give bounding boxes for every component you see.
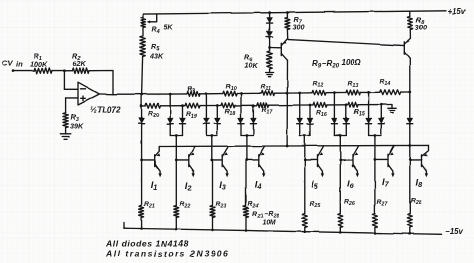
node cell 4 join: [246, 134, 249, 137]
wire cell 5 left diode to join: [299, 124, 301, 135]
node -15 rail at R22: [175, 228, 178, 231]
wire cell 3 right column from second rail: [216, 106, 218, 119]
node -15 rail at R24: [245, 229, 248, 232]
node base junction cell 5: [303, 159, 306, 162]
trimmer R4 5K: [142, 14, 144, 17]
wire base cell 6: [340, 159, 352, 161]
wire base node 3 down to R23: [212, 160, 214, 206]
svg-text:10K: 10K: [245, 61, 259, 70]
svg-text:All transistors 2N3906: All transistors 2N3906: [105, 249, 229, 259]
node second rail cell 2: [181, 104, 184, 107]
node summing junction: [63, 69, 66, 72]
resistor R6 10K: [267, 51, 272, 69]
node cell 7 join: [374, 134, 377, 137]
wire base node 4 down to R24: [245, 160, 247, 206]
wire inverting input stub: [64, 88, 78, 90]
resistor R14 100: [369, 91, 380, 93]
resistor R8 300: [409, 11, 411, 16]
node cell 3 join: [210, 134, 213, 137]
node top rail cell 3: [205, 92, 208, 95]
transistor Q1 PNP mirror: [280, 43, 282, 55]
diode cell 6 right: [344, 118, 350, 123]
wire cell 6 left diode to join: [333, 124, 335, 135]
wire cell 2 right column from second rail: [182, 106, 184, 119]
wire base cell 8: [410, 159, 422, 161]
svg-text:in: in: [16, 60, 23, 69]
wire cell 2 join bar: [170, 135, 182, 137]
diode cell 4 right: [251, 118, 257, 123]
wire cell 4 right diode to join: [252, 124, 254, 135]
diode cell 5 right: [307, 118, 313, 123]
wire +15V supply rail: [143, 11, 446, 14]
node bias reference: [268, 46, 271, 49]
svg-text:+15v: +15v: [448, 7, 466, 16]
wire cell 2 tap down to base node: [175, 136, 177, 161]
resistor R7 300: [286, 11, 289, 14]
svg-text:½TL072: ½TL072: [90, 106, 121, 115]
resistor R19 100: [183, 105, 186, 107]
svg-text:300: 300: [293, 23, 305, 32]
ground below R6: [266, 72, 274, 74]
wire bias node to Q1 base: [270, 47, 282, 49]
node -15 rail at R26: [339, 231, 342, 234]
wire cell 3 left diode to join: [205, 124, 207, 135]
wire cell 5 left column from top rail: [299, 93, 301, 118]
wire Q2 collector down to cell 8 diode: [409, 59, 411, 118]
wire cell 3 right diode to join: [216, 124, 218, 135]
wire second rail to ground: [381, 104, 392, 106]
diode cell 6 left: [332, 118, 338, 123]
node second rail cell 5: [309, 104, 312, 107]
resistor R25 10M: [302, 214, 307, 228]
node second rail cell 3: [216, 104, 219, 107]
wire cell 7 left column from top rail: [368, 92, 370, 118]
wire base cell 7: [375, 159, 388, 161]
wire R1 to summing node: [52, 70, 64, 72]
transistor T7 PNP: [387, 155, 389, 167]
node -15 rail at R25: [304, 230, 307, 233]
wire non-inverting input stub: [66, 97, 78, 99]
wire Q1 collector down to emitter rail: [286, 60, 288, 146]
wire base node 7 down to R27: [374, 160, 376, 214]
wire cell 2 right diode to join: [182, 124, 184, 135]
wire cell 5 tap down to base node: [304, 136, 306, 161]
resistor R17 100: [253, 104, 257, 106]
wire cell 7 right diode to join: [380, 124, 382, 135]
resistor R3 39K: [63, 113, 68, 128]
svg-text:100K: 100K: [30, 60, 48, 69]
wire summing node down to inverting input: [63, 71, 65, 90]
op-amp U1 1/2 TL072: [78, 82, 99, 105]
node output rail at cell 1: [140, 93, 143, 96]
svg-text:62K: 62K: [73, 59, 87, 68]
wire cell 4 right column from second rail: [252, 105, 254, 118]
resistor R28 10M: [407, 214, 412, 228]
node second rail cell 6: [345, 103, 348, 106]
resistor R18 100: [217, 105, 221, 107]
node cell 5 join: [303, 134, 306, 137]
node second rail cell 7: [380, 103, 383, 106]
node -15 rail at R21: [140, 227, 143, 230]
wire base cell 5: [305, 159, 318, 161]
transistor T2 PNP: [188, 155, 190, 167]
node top rail cell 2: [169, 93, 172, 96]
node top rail right end: [408, 91, 411, 94]
node cell 2 join: [175, 134, 178, 137]
wire cell 3 join bar: [206, 135, 217, 137]
resistor R10 100: [206, 93, 222, 95]
resistor R1 100K: [34, 68, 52, 73]
ground below R3: [60, 133, 71, 135]
node top rail cell 7: [367, 91, 370, 94]
wire cell 7 right column from second rail: [380, 105, 382, 119]
diode cell 7 right: [379, 118, 385, 123]
wire cell 6 right diode to join: [345, 124, 347, 135]
resistor R2 62K: [64, 70, 72, 72]
wire cell 6 right column from second rail: [345, 105, 347, 118]
resistor R12 100: [300, 92, 312, 94]
node top rail cell 4: [240, 92, 243, 95]
node CV input terminal: [12, 69, 15, 72]
transistor T4 PNP: [258, 155, 260, 167]
wire cell 7 join bar: [369, 135, 382, 137]
wire base cell 4: [247, 159, 259, 161]
node base junction cell 4: [246, 159, 249, 162]
ground at second rail end: [388, 107, 396, 109]
wire diode D1 to base node 1: [141, 124, 143, 160]
resistor R9 100: [170, 93, 187, 95]
wire diode D8 through emitter rail to base node 8: [409, 124, 411, 160]
wire R3 to ground: [65, 128, 67, 134]
wire non-inverting input down to R3: [65, 98, 67, 113]
wire base node 8 down to R28: [409, 160, 411, 214]
node emitter rail at cell 8: [408, 144, 411, 147]
resistor R5 43K: [142, 28, 144, 37]
diode D8 cell 8: [407, 118, 413, 123]
wire base node 6 down to R26: [339, 160, 341, 214]
node second rail start: [140, 105, 143, 108]
transistor Q2 PNP source: [403, 42, 405, 54]
wire cell 4 left column from top rail: [240, 94, 242, 119]
node base junction cell 7: [374, 159, 377, 162]
resistor R16 100: [310, 104, 313, 106]
resistor R24 10M: [244, 206, 249, 218]
transistor T3 PNP: [221, 155, 223, 167]
wire base node 1 down to R21: [141, 160, 143, 206]
wire base cell 3: [212, 159, 222, 161]
node base junction cell 8: [408, 159, 411, 162]
wire -15V supply rail: [124, 228, 442, 234]
transistor T5 PNP: [317, 155, 319, 167]
wire cell 1 column to diode: [141, 106, 143, 118]
resistor R21 10M: [139, 206, 144, 218]
resistor R20 100: [142, 105, 146, 107]
wire R2 to feedback elbow: [89, 71, 113, 95]
diode cell 4 left: [238, 118, 244, 123]
resistor R15 100: [346, 104, 348, 106]
svg-text:CV: CV: [2, 59, 13, 68]
node top rail cell 5: [298, 92, 301, 95]
wire common emitter rail: [159, 145, 428, 146]
node -15 rail at R28: [409, 232, 412, 235]
svg-text:10M: 10M: [262, 220, 276, 227]
node top rail cell 6: [333, 91, 336, 94]
wire base cell 1: [142, 159, 155, 161]
transistor T1 PNP: [154, 155, 156, 167]
wire cell 3 left column from top rail: [205, 94, 207, 118]
node base junction cell 6: [339, 159, 342, 162]
wire cell 2 left column from top rail: [169, 94, 171, 118]
wire cell 7 left diode to join: [368, 124, 370, 135]
wire cell 4 tap down to base node: [246, 136, 248, 161]
diode D1 cell 1: [139, 118, 145, 123]
wire diode chain from +15 rail: [268, 11, 271, 14]
node second rail cell 4: [252, 104, 255, 107]
resistor R11 100: [241, 92, 262, 94]
wire cell 6 tap down to base node: [339, 136, 341, 161]
diode cell 3 right: [215, 118, 221, 123]
node -15 rail at R23: [211, 229, 214, 232]
wire between bias diodes: [269, 24, 271, 32]
resistor R27 10M: [372, 214, 377, 228]
node base junction cell 3: [210, 159, 213, 162]
resistor R23 10M: [210, 206, 215, 218]
wire base node 5 down to R25: [304, 160, 306, 214]
wire cell 3 tap down to base node: [211, 136, 213, 161]
wire cell 5 right diode to join: [309, 124, 311, 135]
wire cell 6 left column from top rail: [333, 93, 335, 119]
wire cell 7 tap down to base node: [374, 136, 376, 161]
wire CV input to R1: [13, 70, 34, 72]
wire op-amp output to ladder: [99, 93, 113, 95]
wire cell 2 left diode to join: [169, 124, 171, 135]
svg-text:All diodes 1N4148: All diodes 1N4148: [105, 239, 189, 249]
node base junction cell 1: [140, 159, 143, 162]
node emitter rail at Q1 collector: [286, 145, 289, 148]
wire -15 rail left stub: [123, 223, 125, 229]
svg-text:100Ω: 100Ω: [341, 58, 361, 67]
node base junction cell 2: [175, 159, 178, 162]
svg-text:39K: 39K: [70, 122, 84, 131]
diode cell 2 left: [167, 118, 173, 123]
diode cell 2 right: [180, 118, 186, 123]
transistor T6 PNP: [352, 155, 354, 167]
wire base node 2 down to R22: [175, 160, 177, 206]
wire bias diodes to R6 node: [269, 38, 271, 52]
wire bias line Q1 emitter to Q2 base: [288, 40, 404, 46]
transistor T8 PNP: [421, 155, 423, 167]
diode cell 5 left: [297, 118, 303, 123]
wire cell 4 join bar: [241, 135, 253, 137]
wire cell 5 join bar: [300, 135, 310, 137]
diode bias chain lower: [267, 32, 273, 37]
wire cell 6 join bar: [334, 135, 346, 137]
wire R6 to ground: [269, 69, 271, 73]
wire cell 1 column to second rail: [141, 95, 143, 106]
wire cell 5 right column from second rail: [309, 105, 311, 118]
resistor R26 10M: [338, 214, 343, 228]
node -15 rail at R27: [374, 232, 377, 235]
diode cell 7 left: [366, 118, 372, 123]
node top rail mirror injection: [286, 92, 289, 95]
svg-text:300: 300: [415, 23, 427, 32]
resistor R13 100: [334, 92, 346, 94]
node cell 6 join: [339, 134, 342, 137]
diode cell 3 left: [204, 118, 210, 123]
svg-text:5K: 5K: [164, 25, 174, 32]
diode bias chain upper: [267, 18, 273, 23]
svg-text:43K: 43K: [149, 52, 164, 61]
wire cell 4 left diode to join: [240, 124, 242, 135]
wire R5 down to output rail: [142, 56, 143, 95]
wire base cell 2: [176, 159, 189, 161]
svg-text:–15v: –15v: [446, 227, 464, 236]
resistor R22 10M: [174, 206, 179, 218]
